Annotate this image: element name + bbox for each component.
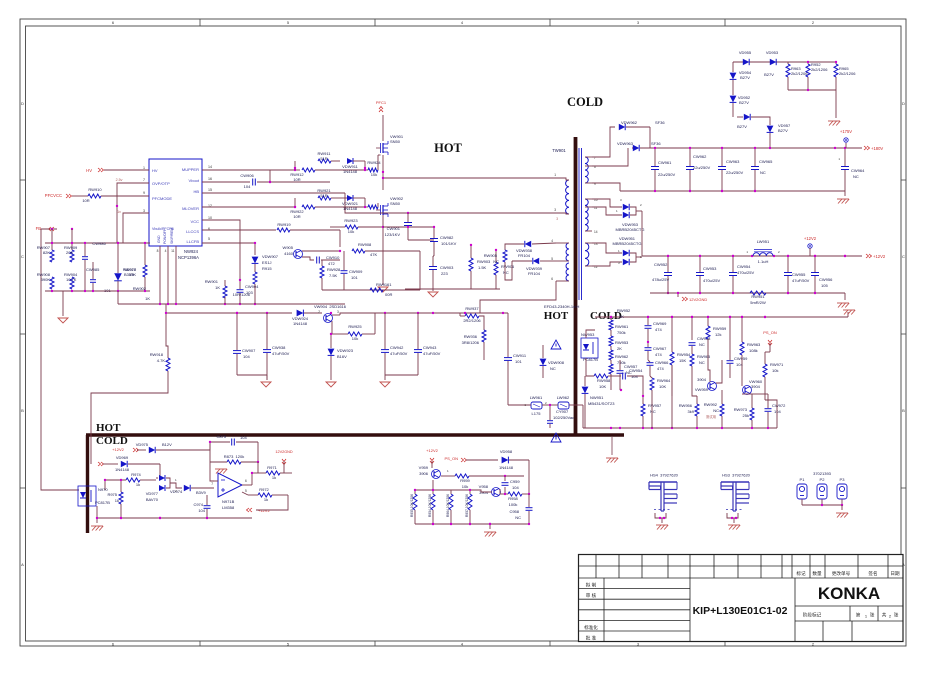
svg-text:RW952: RW952 [617,308,631,313]
svg-text:10R: 10R [293,177,300,182]
svg-text:PS_ON: PS_ON [763,330,777,335]
svg-text:15: 15 [208,188,212,192]
svg-text:+175V: +175V [840,129,852,134]
svg-text:5: 5 [245,489,247,493]
svg-text:RW902: RW902 [133,286,147,291]
svg-text:CW952: CW952 [654,262,668,267]
svg-text:KIP+L130E01C1-02: KIP+L130E01C1-02 [693,605,788,617]
svg-text:B27V: B27V [737,124,747,129]
svg-text:CW956: CW956 [819,277,833,282]
svg-text:20K: 20K [66,250,73,255]
svg-text:MBRB2045CTG: MBRB2045CTG [613,241,642,246]
svg-text:3906: 3906 [419,471,429,476]
svg-text:3: 3 [337,310,339,314]
svg-text:474: 474 [655,352,662,357]
svg-text:5: 5 [551,257,553,261]
svg-text:6: 6 [245,479,247,483]
svg-text:47uF/50V: 47uF/50V [423,351,441,356]
svg-text:TW901: TW901 [552,148,566,153]
svg-text:CW986: CW986 [92,241,106,246]
svg-text:COLD: COLD [567,95,603,109]
svg-text:R959: R959 [460,478,470,483]
svg-text:R915: R915 [262,266,272,271]
svg-text:SKIP/REM: SKIP/REM [170,228,174,244]
svg-text:NC: NC [760,170,766,175]
svg-text:第: 第 [856,612,861,619]
svg-text:+12V2: +12V2 [426,448,438,453]
svg-text:NW953: NW953 [581,332,595,337]
svg-text:1k: 1k [264,497,268,502]
svg-text:VD955: VD955 [739,50,752,55]
svg-text:RW962: RW962 [615,354,629,359]
svg-text:Vboot: Vboot [189,178,200,183]
svg-text:RW901: RW901 [205,279,219,284]
svg-text:NC: NC [853,174,859,179]
svg-text:R958: R958 [508,496,518,501]
svg-text:4: 4 [165,249,167,253]
svg-text:B27V: B27V [739,100,749,105]
svg-text:14: 14 [208,165,212,169]
svg-text:P1: P1 [800,477,806,482]
svg-text:10: 10 [208,216,212,220]
svg-text:C958: C958 [509,509,519,514]
svg-text:10k: 10k [352,336,358,341]
svg-text:张: 张 [894,612,899,619]
svg-text:104: 104 [244,184,251,189]
svg-text:10k: 10k [772,368,778,373]
svg-text:D: D [21,101,24,106]
svg-text:BAV70: BAV70 [146,497,159,502]
svg-text:CW961: CW961 [658,160,672,165]
svg-text:47uF/50V: 47uF/50V [272,351,290,356]
svg-text:C959: C959 [510,479,520,484]
svg-text:B: B [902,408,905,413]
svg-text:CW903: CW903 [440,265,454,270]
svg-text:PFCMODE: PFCMODE [152,196,172,201]
svg-text:拟 制: 拟 制 [586,582,597,589]
svg-text:47uF/50V: 47uF/50V [792,278,810,283]
svg-text:2K: 2K [617,346,622,351]
svg-text:CW907: CW907 [242,348,256,353]
svg-text:D: D [902,101,905,106]
svg-text:HOT: HOT [96,422,121,434]
svg-text:VD953: VD953 [766,50,779,55]
svg-text:MBRB2045CTG: MBRB2045CTG [616,227,645,232]
svg-text:108k: 108k [749,348,758,353]
svg-text:共: 共 [882,612,887,619]
svg-text:HOT: HOT [434,141,462,155]
svg-text:10.7K: 10.7K [66,277,77,282]
svg-text:SF36: SF36 [655,120,665,125]
svg-text:470u/25V: 470u/25V [703,278,720,283]
svg-text:474: 474 [655,327,662,332]
svg-text:RW956: RW956 [679,403,693,408]
svg-text:1k: 1k [272,475,276,480]
svg-text:LLCCS: LLCCS [186,229,199,234]
svg-text:N971B: N971B [222,499,235,504]
svg-text:SN50: SN50 [390,201,401,206]
svg-text:VDW963: VDW963 [617,141,634,146]
svg-text:10k: 10k [462,484,468,489]
svg-text:CW962: CW962 [693,154,707,159]
svg-text:22u/250V: 22u/250V [658,172,675,177]
svg-text:4160: 4160 [284,251,294,256]
svg-text:1: 1 [143,166,145,170]
svg-text:GND: GND [157,235,161,243]
svg-text:VDW907: VDW907 [262,254,279,259]
svg-text:10k: 10k [371,172,377,177]
svg-text:RW961: RW961 [615,324,629,329]
svg-text:CW959: CW959 [734,356,748,361]
svg-text:2k2/1206: 2k2/1206 [811,67,828,72]
svg-text:VDW908: VDW908 [548,360,565,365]
svg-text:10R: 10R [82,198,89,203]
svg-text:CW955: CW955 [792,272,806,277]
svg-text:82K: 82K [43,250,50,255]
svg-text:22u/250V: 22u/250V [726,170,743,175]
svg-text:CW938: CW938 [272,345,286,350]
svg-text:HS3 37927620: HS3 37927620 [722,473,751,478]
svg-text:HV: HV [86,168,92,173]
svg-text:RW918: RW918 [150,352,164,357]
svg-text:PFC1: PFC1 [376,100,387,105]
svg-text:CW985: CW985 [86,267,100,272]
svg-text:00R: 00R [385,292,392,297]
svg-text:NC: NC [550,366,556,371]
svg-text:B27V: B27V [764,72,774,77]
svg-text:SF36: SF36 [651,141,661,146]
svg-text:VD969: VD969 [116,455,129,460]
svg-text:1v: 1v [117,210,121,214]
svg-text:C875: C875 [216,434,226,439]
svg-text:3k9: 3k9 [688,409,695,414]
svg-text:NC: NC [493,259,499,264]
svg-text:数量: 数量 [812,570,822,577]
svg-text:51R: 51R [320,193,327,198]
svg-text:RW992: RW992 [704,402,718,407]
svg-text:4: 4 [551,239,553,243]
svg-text:HV: HV [152,168,158,173]
svg-text:750k: 750k [617,330,626,335]
svg-text:CW906: CW906 [240,173,254,178]
svg-text:1K: 1K [145,296,150,301]
svg-text:101/1KV: 101/1KV [441,241,457,246]
svg-text:R972: R972 [259,487,269,492]
svg-text:105: 105 [821,283,828,288]
svg-text:7: 7 [143,178,145,182]
svg-text:470u/25V: 470u/25V [737,270,754,275]
svg-text:张: 张 [870,612,875,619]
svg-text:12V2GND: 12V2GND [689,297,707,302]
svg-text:+180V: +180V [871,146,883,151]
svg-text:PS_ON: PS_ON [444,456,458,461]
svg-text:阶段标记: 阶段标记 [803,612,822,619]
svg-text:VD958: VD958 [500,449,513,454]
svg-text:100k: 100k [509,502,518,507]
svg-text:3904: 3904 [479,490,489,495]
svg-text:2R2/1206: 2R2/1206 [463,318,481,323]
svg-text:R873 120k: R873 120k [224,454,244,459]
svg-text:NW924: NW924 [184,249,199,254]
svg-text:10R: 10R [293,214,300,219]
svg-text:+12V2: +12V2 [873,254,886,259]
svg-text:RW906: RW906 [501,264,515,269]
svg-text:12k: 12k [715,332,721,337]
svg-text:MUPPER: MUPPER [182,167,199,172]
svg-text:C: C [902,254,905,259]
svg-text:478u/25V: 478u/25V [652,277,669,282]
svg-text:RW971: RW971 [770,362,784,367]
svg-text:PON/OFF: PON/OFF [163,229,167,244]
svg-text:390K: 390K [41,277,51,282]
svg-text:7.5K: 7.5K [329,273,338,278]
svg-text:B12V: B12V [162,442,172,447]
svg-text:51R: 51R [320,156,327,161]
svg-text:37021393: 37021393 [813,471,832,476]
svg-text:批 准: 批 准 [586,635,597,642]
svg-text:R964 10K/1206: R964 10K/1206 [446,494,450,517]
svg-text:P2: P2 [820,477,826,482]
svg-text:MB431/SOT23: MB431/SOT23 [588,401,615,406]
svg-text:LW962: LW962 [557,395,570,400]
svg-text:RW936: RW936 [464,334,478,339]
svg-text:VD977: VD977 [146,491,159,496]
svg-text:+12V2: +12V2 [112,447,124,452]
svg-text:CW982: CW982 [440,235,454,240]
svg-text:CW972: CW972 [772,403,786,408]
svg-text:CW963: CW963 [726,159,740,164]
svg-text:RW9161: RW9161 [376,282,392,287]
svg-text:2: 2 [318,310,320,314]
svg-text:W905: W905 [283,245,294,250]
svg-text:1k: 1k [115,498,119,503]
svg-text:104: 104 [240,435,247,440]
svg-text:A: A [21,562,24,567]
svg-text:PC817B: PC817B [583,357,598,362]
svg-text:B: B [21,408,24,413]
svg-text:RW963: RW963 [747,342,761,347]
svg-text:KONKA: KONKA [818,584,880,603]
svg-text:FB: FB [36,226,42,231]
svg-text:EFD43-2340H-1mH: EFD43-2340H-1mH [544,304,579,309]
svg-text:RW959: RW959 [713,326,727,331]
svg-text:HS4 37927620: HS4 37927620 [650,473,679,478]
svg-text:PFCVCC: PFCVCC [45,193,62,198]
svg-text:V958: V958 [479,484,489,489]
svg-text:104: 104 [243,354,250,359]
svg-text:B27V: B27V [778,128,788,133]
svg-text:RW919: RW919 [277,222,291,227]
svg-text:LM358: LM358 [222,505,235,510]
svg-text:测试用: 测试用 [706,414,716,419]
svg-text:CW969: CW969 [653,321,667,326]
svg-text:CW967: CW967 [653,346,667,351]
svg-text:NC: NC [503,270,509,275]
svg-text:5mR/2W: 5mR/2W [750,300,766,305]
svg-text:CW911: CW911 [513,353,527,358]
svg-text:7: 7 [211,482,213,486]
svg-text:1N4148: 1N4148 [115,467,130,472]
svg-text:NC: NC [515,515,521,520]
svg-text:FR104: FR104 [518,253,531,258]
svg-text:HOT: HOT [544,310,569,322]
svg-text:47K: 47K [370,252,377,257]
svg-text:C: C [21,254,24,259]
svg-text:R975: R975 [107,492,117,497]
svg-text:B27V: B27V [740,75,750,80]
svg-text:RW925: RW925 [348,324,362,329]
svg-text:CW942: CW942 [390,345,404,350]
svg-text:CY907: CY907 [556,409,569,414]
svg-text:SN50: SN50 [390,139,401,144]
svg-text:CW966: CW966 [655,360,669,365]
svg-text:2k2/1206: 2k2/1206 [839,71,856,76]
svg-text:10R/1206: 10R/1206 [233,292,251,297]
svg-text:RW908: RW908 [358,242,372,247]
svg-text:3904: 3904 [751,384,761,389]
svg-text:标准化: 标准化 [584,624,598,631]
svg-text:VDW923: VDW923 [337,348,354,353]
svg-text:9: 9 [143,191,145,195]
svg-text:104: 104 [512,485,519,490]
svg-text:RW928: RW928 [327,267,341,272]
svg-text:1K: 1K [215,285,220,290]
svg-text:11: 11 [171,249,175,253]
svg-text:1N4148: 1N4148 [499,465,514,470]
svg-text:签名: 签名 [868,570,877,577]
svg-text:CW909: CW909 [349,269,363,274]
svg-text:25k: 25k [743,413,749,418]
svg-text:LW951: LW951 [757,239,770,244]
svg-text:1.1uH: 1.1uH [758,259,769,264]
svg-text:223: 223 [441,271,448,276]
svg-text:CW954: CW954 [737,264,751,269]
svg-text:+12V2: +12V2 [258,508,270,513]
svg-text:B16V: B16V [337,354,347,359]
svg-text:2k2/1206: 2k2/1206 [791,71,808,76]
svg-text:3K: 3K [619,314,624,319]
svg-text:OVP/OTP: OVP/OTP [152,181,170,186]
svg-text:RW973: RW973 [734,407,748,412]
svg-text:22u/250V: 22u/250V [693,165,710,170]
svg-text:CW904: CW904 [245,284,259,289]
svg-text:HB: HB [193,189,199,194]
svg-text:CW965: CW965 [759,159,773,164]
svg-text:R955 10K/1206: R955 10K/1206 [410,494,414,517]
svg-text:14: 14 [594,230,598,234]
svg-text:ES1J: ES1J [262,260,272,265]
svg-text:COLD: COLD [96,435,128,447]
svg-text:NC: NC [650,409,656,414]
svg-text:RW954: RW954 [677,352,691,357]
svg-text:RW953: RW953 [615,340,629,345]
svg-text:FR104: FR104 [528,271,541,276]
svg-text:RW923: RW923 [344,218,358,223]
svg-text:474: 474 [657,366,664,371]
svg-text:472: 472 [328,261,335,266]
svg-text:CW964: CW964 [851,168,865,173]
svg-text:VW959: VW959 [695,387,709,392]
svg-text:RW957: RW957 [648,403,662,408]
svg-text:R957 10K/1206: R957 10K/1206 [465,494,469,517]
svg-text:RW903: RW903 [477,259,491,264]
svg-text:NCP1396A: NCP1396A [178,255,199,260]
svg-text:2.5v: 2.5v [116,178,123,182]
svg-text:RW905: RW905 [484,253,498,258]
svg-text:1: 1 [554,173,556,177]
svg-text:4.7K: 4.7K [157,358,166,363]
svg-text:B3V9: B3V9 [196,490,207,495]
svg-text:RW958: RW958 [597,378,611,383]
svg-text:L175: L175 [532,411,542,416]
svg-text:+12V2: +12V2 [804,236,817,241]
svg-text:3: 3 [554,208,556,212]
svg-text:R954 10K/1206: R954 10K/1206 [428,494,432,517]
svg-text:3R8/1206: 3R8/1206 [462,340,480,345]
svg-text:VCC: VCC [191,219,200,224]
svg-text:LW961: LW961 [530,395,543,400]
svg-text:RW951: RW951 [751,294,765,299]
svg-text:1.5K: 1.5K [478,265,487,270]
svg-text:标记: 标记 [796,570,806,577]
svg-text:CW953: CW953 [703,266,717,271]
svg-text:102/250Vac: 102/250Vac [553,415,574,420]
svg-text:101: 101 [351,275,358,280]
svg-text:RW910: RW910 [88,187,102,192]
svg-text:VD975: VD975 [136,442,149,447]
svg-text:6: 6 [551,277,553,281]
svg-text:VW904 2SD1616: VW904 2SD1616 [314,304,347,309]
svg-text:33K: 33K [129,272,136,277]
svg-text:RW965: RW965 [697,354,711,359]
svg-text:104: 104 [774,409,781,414]
svg-text:V959: V959 [419,465,429,470]
svg-text:NC: NC [699,342,705,347]
svg-text:3: 3 [556,217,558,221]
svg-text:CW954: CW954 [629,368,643,373]
svg-text:RW924: RW924 [367,160,381,165]
svg-text:RW964: RW964 [657,378,671,383]
svg-text:47uF/50V: 47uF/50V [390,351,408,356]
svg-text:P3: P3 [840,477,846,482]
svg-text:1N4148: 1N4148 [343,169,358,174]
svg-text:LLCFB: LLCFB [187,239,200,244]
svg-text:101: 101 [104,288,111,293]
svg-text:1N4148: 1N4148 [293,321,308,326]
svg-text:NC: NC [713,408,719,413]
svg-text:CW943: CW943 [423,345,437,350]
svg-text:104: 104 [198,508,205,513]
svg-text:1k: 1k [136,482,140,487]
svg-text:12V2GND: 12V2GND [275,450,293,454]
svg-text:C974: C974 [193,502,203,507]
svg-text:104: 104 [631,374,638,379]
svg-text:CW910: CW910 [326,255,340,260]
svg-text:15K: 15K [679,358,686,363]
svg-text:VDW962: VDW962 [621,120,638,125]
svg-text:3: 3 [143,209,145,213]
svg-text:123/1KV: 123/1KV [385,232,401,237]
svg-text:10k: 10k [348,229,354,234]
svg-text:审 核: 审 核 [586,592,597,599]
svg-text:NW951: NW951 [590,395,604,400]
svg-text:8: 8 [157,249,159,253]
svg-text:5: 5 [208,237,210,241]
svg-text:更改单号: 更改单号 [832,570,851,577]
svg-text:16: 16 [208,177,212,181]
svg-text:101: 101 [515,359,522,364]
svg-text:R974: R974 [131,472,141,477]
